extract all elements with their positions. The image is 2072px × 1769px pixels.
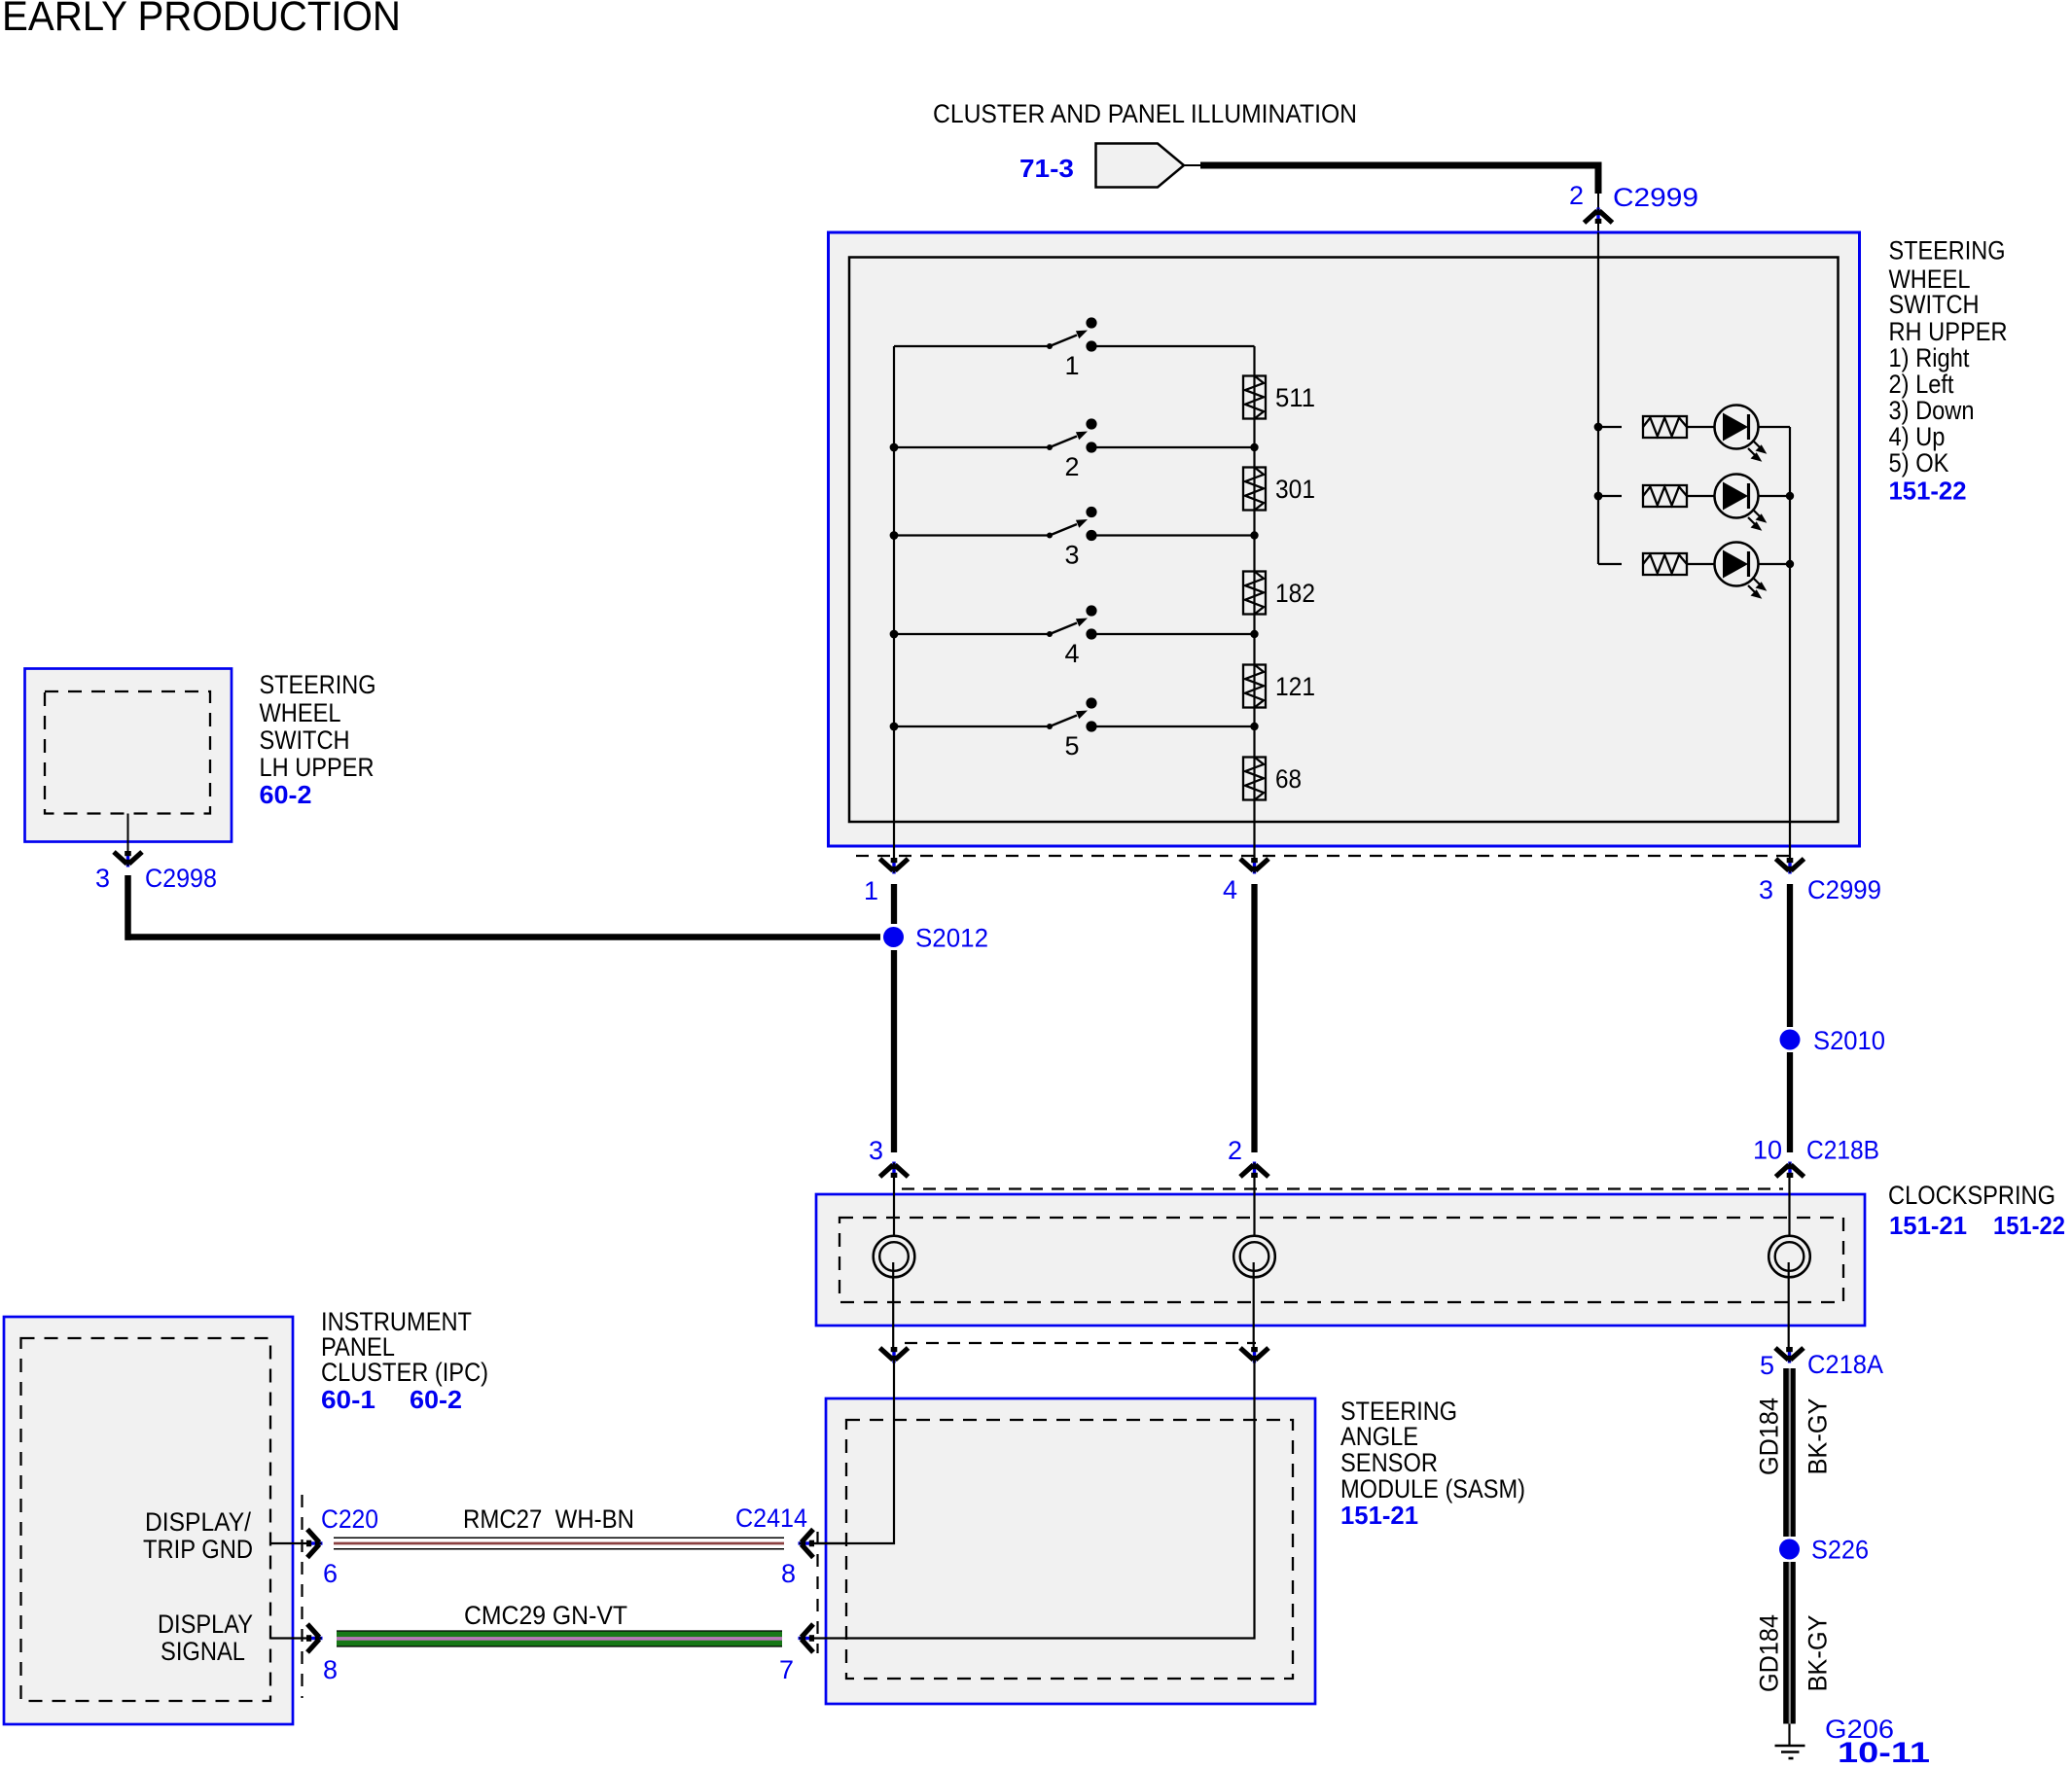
svg-text:GD184: GD184 <box>1755 1614 1784 1692</box>
svg-text:71-3: 71-3 <box>1019 154 1074 183</box>
svg-text:5: 5 <box>1760 1351 1774 1380</box>
svg-text:182: 182 <box>1275 579 1315 608</box>
svg-text:C2414: C2414 <box>735 1504 807 1533</box>
svg-text:4) Up: 4) Up <box>1889 422 1946 451</box>
svg-text:301: 301 <box>1275 475 1315 504</box>
svg-text:SIGNAL: SIGNAL <box>161 1637 245 1666</box>
svg-text:151-22: 151-22 <box>1993 1211 2065 1240</box>
svg-text:STEERING: STEERING <box>260 670 376 699</box>
svg-text:10-11: 10-11 <box>1838 1737 1930 1764</box>
svg-text:RMC27 WH-BN: RMC27 WH-BN <box>463 1504 634 1534</box>
svg-text:SWITCH: SWITCH <box>1889 290 1980 319</box>
svg-text:RH UPPER: RH UPPER <box>1889 317 2008 346</box>
svg-text:S2012: S2012 <box>915 924 988 953</box>
svg-text:511: 511 <box>1275 383 1315 412</box>
svg-text:1) Right: 1) Right <box>1889 343 1970 372</box>
svg-text:2: 2 <box>1569 181 1584 210</box>
svg-text:60-1: 60-1 <box>321 1385 375 1414</box>
svg-text:LH UPPER: LH UPPER <box>260 753 375 782</box>
svg-text:EARLY PRODUCTION: EARLY PRODUCTION <box>2 0 401 40</box>
svg-text:5: 5 <box>1064 731 1079 761</box>
svg-text:151-21: 151-21 <box>1889 1211 1967 1240</box>
svg-text:C2999: C2999 <box>1807 875 1881 904</box>
svg-text:2: 2 <box>1228 1136 1242 1165</box>
svg-text:STEERING: STEERING <box>1889 236 2006 265</box>
svg-text:TRIP GND: TRIP GND <box>143 1535 253 1564</box>
svg-text:C218A: C218A <box>1807 1350 1883 1379</box>
svg-text:5) OK: 5) OK <box>1889 448 1949 478</box>
svg-text:3: 3 <box>1759 875 1773 904</box>
svg-text:SENSOR: SENSOR <box>1340 1448 1438 1477</box>
svg-text:CMC29 GN-VT: CMC29 GN-VT <box>464 1601 627 1630</box>
svg-text:S2010: S2010 <box>1813 1026 1885 1055</box>
svg-text:3: 3 <box>1064 541 1079 570</box>
svg-text:S226: S226 <box>1811 1536 1869 1565</box>
svg-text:C2999: C2999 <box>1613 183 1698 212</box>
svg-text:DISPLAY/: DISPLAY/ <box>145 1507 251 1537</box>
svg-text:C218B: C218B <box>1806 1136 1879 1165</box>
svg-text:CLUSTER (IPC): CLUSTER (IPC) <box>321 1358 488 1387</box>
svg-text:2) Left: 2) Left <box>1889 370 1954 399</box>
svg-text:CLOCKSPRING: CLOCKSPRING <box>1888 1181 2055 1210</box>
svg-text:MODULE (SASM): MODULE (SASM) <box>1340 1474 1525 1504</box>
svg-text:SWITCH: SWITCH <box>260 725 350 755</box>
svg-text:151-21: 151-21 <box>1340 1501 1418 1530</box>
svg-text:ANGLE: ANGLE <box>1340 1422 1418 1451</box>
svg-text:3) Down: 3) Down <box>1889 396 1975 425</box>
svg-text:121: 121 <box>1275 672 1315 701</box>
svg-text:68: 68 <box>1275 764 1302 794</box>
svg-text:4: 4 <box>1223 875 1237 904</box>
svg-text:3: 3 <box>869 1136 883 1165</box>
svg-text:CLUSTER AND PANEL ILLUMINATION: CLUSTER AND PANEL ILLUMINATION <box>933 99 1357 128</box>
svg-text:4: 4 <box>1064 639 1079 668</box>
svg-text:1: 1 <box>1064 351 1079 380</box>
svg-text:C2998: C2998 <box>145 864 217 893</box>
svg-text:8: 8 <box>323 1655 338 1684</box>
svg-text:BK-GY: BK-GY <box>1804 1398 1833 1475</box>
svg-text:6: 6 <box>323 1559 338 1588</box>
svg-text:1: 1 <box>864 876 878 905</box>
svg-text:151-22: 151-22 <box>1889 477 1967 506</box>
svg-text:60-2: 60-2 <box>260 780 312 809</box>
svg-text:8: 8 <box>781 1559 796 1588</box>
svg-text:BK-GY: BK-GY <box>1804 1615 1833 1692</box>
svg-text:2: 2 <box>1064 452 1079 481</box>
svg-text:60-2: 60-2 <box>410 1385 462 1414</box>
svg-text:C220: C220 <box>321 1504 378 1534</box>
svg-text:WHEEL: WHEEL <box>260 698 341 727</box>
svg-text:DISPLAY: DISPLAY <box>158 1610 253 1639</box>
svg-text:GD184: GD184 <box>1755 1398 1784 1475</box>
svg-text:7: 7 <box>779 1655 794 1684</box>
svg-text:10: 10 <box>1753 1136 1782 1165</box>
svg-text:3: 3 <box>95 864 110 893</box>
